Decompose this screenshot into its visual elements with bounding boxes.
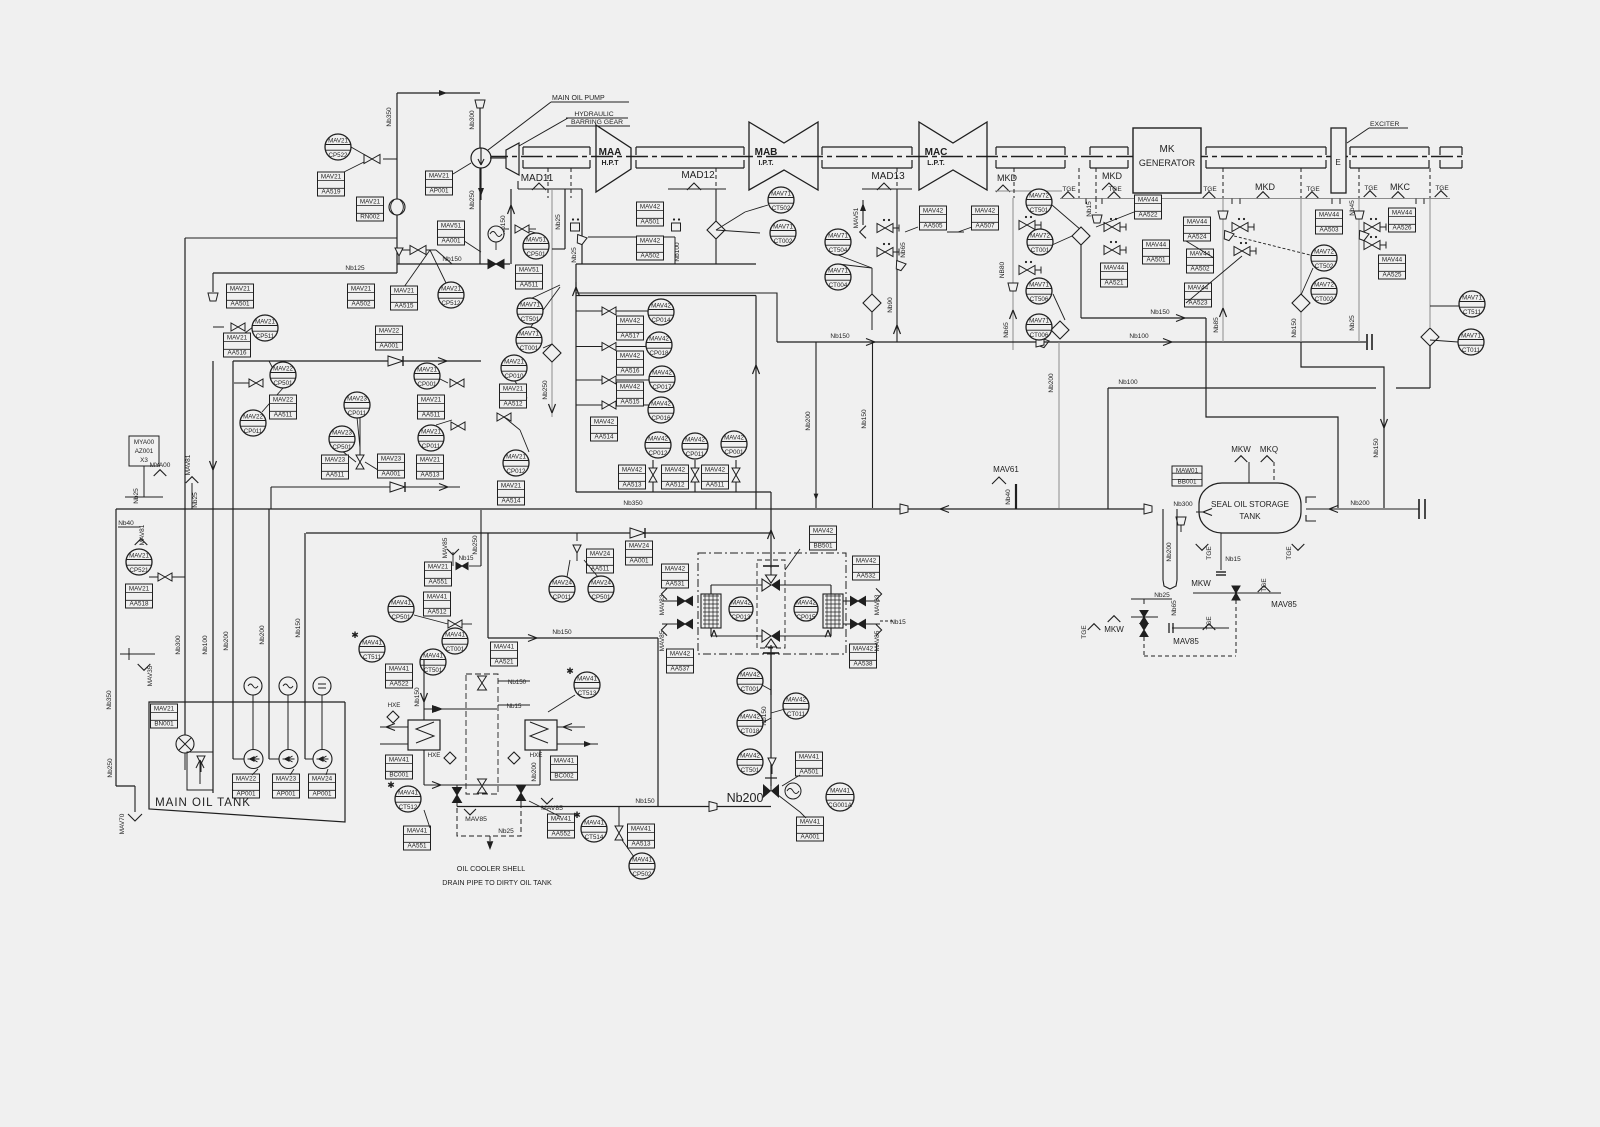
label box MAV22/AP001 [233, 774, 260, 798]
pennant [1088, 624, 1101, 630]
wire pump2 suction [268, 509, 270, 759]
svg-text:CT514: CT514 [585, 834, 604, 841]
left filter [701, 594, 721, 628]
instrument MAV72/CT501 [1026, 189, 1052, 215]
svg-text:MAV21: MAV21 [255, 318, 275, 325]
valve arrow [435, 706, 443, 712]
instrument MAV21/CP521 [126, 549, 152, 575]
svg-text:Nb25: Nb25 [192, 492, 199, 508]
label box MAV42/AA514 [591, 417, 618, 441]
instrument MAV22/CP501 [270, 362, 296, 388]
svg-text:MAV42: MAV42 [796, 599, 816, 606]
svg-text:✱: ✱ [351, 630, 359, 640]
svg-text:E: E [1335, 158, 1340, 167]
svg-text:AA531: AA531 [666, 580, 685, 587]
valve MAV42 branch [602, 376, 616, 384]
svg-text:MAV44: MAV44 [1138, 197, 1159, 204]
drain funnel [575, 235, 587, 246]
flow arrow [866, 339, 875, 346]
svg-text:MKD: MKD [1102, 171, 1123, 181]
svg-text:MAD13: MAD13 [871, 171, 905, 182]
instrument MAV72/CT502 [1311, 245, 1337, 271]
svg-text:MAV44: MAV44 [1104, 265, 1125, 272]
svg-text:MAV42: MAV42 [665, 566, 686, 573]
flow arrow [438, 358, 447, 365]
label box MAV42/AA501 [637, 202, 664, 226]
svg-text:MKD: MKD [1255, 182, 1276, 192]
svg-text:MAV41: MAV41 [398, 789, 418, 796]
wire cooler top header Nb150 [488, 637, 658, 639]
svg-text:MAV81: MAV81 [185, 454, 192, 475]
pennant [1203, 192, 1216, 198]
svg-text:Nb45: Nb45 [1349, 200, 1356, 216]
svg-text:MAV70: MAV70 [119, 813, 126, 834]
pennant [661, 624, 667, 635]
main oil tank outline [149, 702, 345, 822]
svg-text:CT502: CT502 [1315, 263, 1334, 270]
label box MAV51/AA511 [516, 265, 543, 289]
flow arrow [1163, 339, 1172, 346]
svg-text:MAV41: MAV41 [830, 787, 850, 794]
svg-text:MAV42: MAV42 [620, 318, 641, 325]
label box MAV42/AA538 [850, 644, 877, 668]
wire pump3 suction [304, 533, 306, 759]
label box MAV21/BN001 [151, 704, 178, 728]
svg-text:AA512: AA512 [428, 608, 447, 615]
svg-text:Nb40: Nb40 [1005, 489, 1012, 505]
svg-text:CP011: CP011 [348, 410, 367, 417]
label box MAV44/AA521 [1101, 263, 1128, 287]
svg-text:AA501: AA501 [231, 300, 250, 307]
svg-text:MAV42: MAV42 [731, 599, 751, 606]
wire MAV42 branch [576, 379, 649, 381]
cooler bottom connections [423, 750, 425, 785]
svg-text:MAV85: MAV85 [465, 816, 487, 823]
drain arrow [487, 841, 494, 850]
svg-text:AA513: AA513 [632, 840, 651, 847]
vent valve MAD13b [877, 243, 899, 257]
svg-text:AA512: AA512 [666, 481, 685, 488]
label box MAV44/AA524 [1184, 217, 1211, 241]
svg-text:Nb15: Nb15 [1086, 201, 1093, 217]
wire Nb125 y273 [213, 272, 397, 274]
flow arrow [508, 205, 515, 214]
label box MAV51/AA001 [438, 221, 465, 245]
svg-text:CT006: CT006 [1030, 332, 1049, 339]
svg-text:MAV44: MAV44 [1187, 219, 1208, 226]
label box MAV42/AA531 [662, 564, 689, 588]
svg-text:MAV42: MAV42 [740, 752, 760, 759]
label box MAV21/AA516 [224, 333, 251, 357]
shaft drop line [1078, 168, 1080, 198]
svg-text:MAV42: MAV42 [923, 208, 944, 215]
svg-text:MAV85: MAV85 [1271, 600, 1297, 609]
pennant [687, 183, 701, 190]
svg-text:MAV42: MAV42 [665, 467, 686, 474]
svg-text:AA514: AA514 [502, 497, 521, 504]
turbine MAC L.P.T [919, 122, 987, 190]
svg-text:AA513: AA513 [623, 481, 642, 488]
label box MAV44/AA523 [1185, 283, 1212, 307]
svg-text:MAV44: MAV44 [1392, 210, 1413, 217]
svg-text:AA503: AA503 [1320, 226, 1339, 233]
flow arrow [432, 782, 441, 789]
svg-text:MAV51: MAV51 [519, 267, 540, 274]
svg-text:MAIN OIL TANK: MAIN OIL TANK [155, 797, 251, 809]
wire Nb25 gray drop [1358, 199, 1360, 343]
svg-text:AA513: AA513 [421, 471, 440, 478]
valve Nb15 [456, 563, 468, 570]
wire drain down right [1206, 318, 1338, 508]
svg-text:Nb85: Nb85 [1213, 317, 1220, 333]
svg-text:MAV22: MAV22 [273, 397, 294, 404]
svg-text:TGE: TGE [1081, 625, 1088, 639]
svg-text:MAV42: MAV42 [856, 558, 877, 565]
instrument MAV22/CP011 [240, 410, 266, 436]
pennant [135, 539, 148, 545]
svg-text:TANK: TANK [1239, 512, 1261, 521]
shaft drop line [1300, 168, 1302, 198]
vent valve MKDb [1019, 261, 1041, 275]
svg-text:MAV21: MAV21 [230, 286, 251, 293]
drain funnel [894, 261, 906, 272]
wire tank outlet Nb200 [1306, 508, 1419, 510]
svg-text:Nb350: Nb350 [386, 107, 393, 127]
svg-text:Nb100: Nb100 [1129, 333, 1149, 340]
instrument MAV71/CT002 [770, 220, 796, 246]
pennant [876, 588, 882, 599]
svg-text:MYA00: MYA00 [150, 462, 171, 469]
pennant [138, 664, 151, 670]
shaft drop line [570, 168, 572, 198]
svg-text:Nb150: Nb150 [552, 629, 572, 636]
vent valve [1232, 218, 1254, 232]
wire Nb100 lower header y388 [1107, 388, 1109, 509]
svg-text:MAV21: MAV21 [129, 552, 149, 559]
svg-text:MAV42: MAV42 [813, 528, 834, 535]
svg-text:AA511: AA511 [326, 471, 345, 478]
drain funnel [208, 293, 218, 301]
svg-text:AA511: AA511 [422, 411, 441, 418]
instrument MAV42/CP013 [729, 597, 753, 621]
svg-text:AA515: AA515 [621, 398, 640, 405]
pennant [447, 549, 459, 555]
svg-text:BARRING GEAR: BARRING GEAR [571, 119, 623, 126]
wire MAV71 CT504 leaders [838, 255, 872, 268]
tank internal pump [176, 735, 194, 753]
svg-text:MAV41: MAV41 [389, 757, 410, 764]
svg-text:Nb150: Nb150 [1373, 438, 1380, 458]
svg-text:MAV71: MAV71 [773, 223, 793, 230]
svg-text:CT512: CT512 [399, 804, 418, 811]
svg-text:Nb200: Nb200 [259, 625, 266, 645]
label box MAV42/AA515 [617, 382, 644, 406]
svg-text:CT504: CT504 [829, 247, 848, 254]
svg-text:Nb150: Nb150 [442, 256, 462, 263]
shaft drop line [1013, 168, 1015, 198]
label box MAV44/AA522 [1135, 195, 1162, 219]
svg-text:AA514: AA514 [595, 433, 614, 440]
valve ext right top [851, 597, 866, 606]
label box MAV42/AA517 [617, 316, 644, 340]
pennant [1102, 183, 1116, 190]
valve MAV42 branch [602, 401, 616, 409]
motor symbol [244, 677, 262, 695]
shaft coupling bracket [636, 146, 744, 148]
sine instrument [488, 226, 504, 242]
svg-text:CP522: CP522 [329, 152, 348, 159]
sight glass MAD13 [863, 294, 881, 312]
svg-text:MAD11: MAD11 [521, 173, 554, 184]
svg-text:MAV41: MAV41 [799, 754, 820, 761]
label box MAV44/AA503 [1316, 210, 1343, 234]
svg-text:Nb15: Nb15 [890, 619, 906, 626]
svg-text:Nb150: Nb150 [508, 679, 527, 686]
svg-text:MAV42: MAV42 [648, 435, 668, 442]
svg-text:MAV21: MAV21 [351, 286, 372, 293]
svg-text:TGE: TGE [1261, 578, 1268, 592]
instrument MAV24/CP501 [588, 576, 614, 602]
flow arrow [1381, 419, 1388, 428]
diamond HXE L2 [444, 752, 456, 764]
reducer Nb200 [709, 802, 717, 812]
svg-text:AA501: AA501 [800, 768, 819, 775]
instrument MAV72/CT001 [1027, 229, 1053, 255]
wire MKD gray drop [1012, 198, 1014, 350]
wire MAV42 branch [576, 310, 649, 312]
shaft drop line [1429, 168, 1431, 198]
svg-text:Nb65: Nb65 [900, 242, 907, 258]
svg-text:MAV21: MAV21 [129, 586, 150, 593]
label box MAV21/AA515 [391, 286, 418, 310]
svg-text:MAV41: MAV41 [551, 816, 572, 823]
instrument MAV42/CP001 [721, 431, 747, 457]
svg-text:MAV24: MAV24 [312, 776, 333, 783]
label box MAV42/AA502 [637, 236, 664, 260]
svg-text:MAV42: MAV42 [640, 204, 661, 211]
svg-text:MAV41: MAV41 [631, 826, 652, 833]
svg-text:Nb90: Nb90 [887, 297, 894, 313]
instrument MAV71/CT506 [1026, 278, 1052, 304]
pennant [1306, 192, 1319, 198]
reducer on main header [900, 504, 908, 514]
exciter E [1331, 128, 1346, 193]
shaft coupling bracket [1350, 146, 1429, 148]
pennant [1203, 624, 1216, 630]
svg-text:L.P.T.: L.P.T. [927, 160, 944, 167]
svg-text:MAV42: MAV42 [651, 302, 671, 309]
svg-text:MAV41: MAV41 [632, 856, 652, 863]
svg-text:CP013: CP013 [732, 614, 751, 621]
reducer at tank inlet [1144, 504, 1152, 514]
relief valve extractor [768, 758, 776, 774]
shaft drop line [1095, 168, 1097, 198]
flow arrow [894, 325, 901, 334]
svg-text:CT501: CT501 [521, 316, 540, 323]
pennant [1062, 192, 1075, 198]
valve MKW left [1140, 611, 1148, 624]
svg-text:AA522: AA522 [1139, 211, 1158, 218]
svg-text:AA523: AA523 [1189, 299, 1208, 306]
instrument MAV42/CP016 [648, 397, 674, 423]
label box MAV22/AA511 [270, 395, 297, 419]
instrument MAV41/CP502 [629, 853, 655, 879]
svg-text:Nb200: Nb200 [1166, 542, 1173, 562]
svg-text:CG001A: CG001A [828, 802, 853, 809]
svg-text:MAV41: MAV41 [494, 644, 515, 651]
svg-text:MAV21: MAV21 [417, 366, 437, 373]
pressure switch sq2 [672, 218, 681, 231]
wire extractor feed [770, 492, 772, 568]
svg-text:AA501: AA501 [641, 218, 660, 225]
svg-text:MAV24: MAV24 [591, 579, 611, 586]
svg-text:MAV71: MAV71 [1029, 317, 1049, 324]
svg-text:AA515: AA515 [395, 302, 414, 309]
svg-text:AA511: AA511 [520, 281, 539, 288]
svg-text:CP010: CP010 [505, 373, 524, 380]
svg-text:CP012: CP012 [649, 450, 668, 457]
valve MAV42 branch [602, 307, 616, 315]
label box MAV41/AA501 [796, 752, 823, 776]
wire MKC gray drop [1429, 199, 1431, 329]
svg-text:CT002: CT002 [774, 238, 793, 245]
instrument MAV21/CP512 [438, 282, 464, 308]
diamond HXE L [387, 711, 399, 723]
svg-text:Nb200: Nb200 [531, 762, 538, 782]
label box MAV21/AA519 [318, 172, 345, 196]
pennant [1435, 191, 1448, 197]
shaft coupling bracket [1440, 146, 1462, 148]
vent valve gen-left b [1104, 241, 1126, 255]
svg-text:Nb250: Nb250 [472, 535, 479, 555]
svg-text:RN002: RN002 [360, 213, 380, 220]
svg-text:SEAL OIL STORAGE: SEAL OIL STORAGE [1211, 500, 1289, 509]
svg-text:TGE: TGE [1286, 546, 1293, 560]
pennant [1196, 544, 1209, 550]
svg-text:MKW: MKW [1104, 625, 1124, 634]
svg-text:BC002: BC002 [554, 772, 574, 779]
flow arrow [1329, 506, 1338, 513]
valve MAV22 [249, 379, 263, 387]
label box MAV21/AP001 [426, 171, 453, 195]
svg-text:Nb150: Nb150 [830, 333, 850, 340]
wire gen drain manifold y318 [1081, 317, 1206, 319]
svg-text:MAV51: MAV51 [441, 223, 462, 230]
svg-text:MAV41: MAV41 [554, 758, 575, 765]
pennant [128, 814, 142, 821]
pennant [1108, 616, 1121, 622]
label box MAV23/AA511 [322, 455, 349, 479]
instrument MAV41/CT514 [573, 810, 607, 842]
AC oil pump [313, 750, 332, 769]
svg-text:MAV24: MAV24 [590, 551, 611, 558]
loop arrow L [711, 630, 717, 637]
vent valve gen-left a [1104, 218, 1126, 232]
TGE header line [1060, 198, 1450, 200]
pennant [1392, 192, 1405, 198]
svg-text:CP001: CP001 [418, 381, 437, 388]
leaders right cluster [1096, 212, 1134, 227]
svg-text:✱: ✱ [566, 666, 574, 676]
svg-text:MAV44: MAV44 [1146, 242, 1167, 249]
svg-text:CP502: CP502 [633, 871, 652, 878]
svg-text:CP017: CP017 [653, 384, 672, 391]
svg-text:MAB: MAB [755, 147, 778, 158]
svg-text:MAV44: MAV44 [1382, 257, 1403, 264]
instrument MAV42/CT011 [783, 693, 809, 719]
svg-text:Nb40: Nb40 [118, 520, 134, 527]
isolating valve filled [488, 260, 504, 269]
svg-text:MAV41: MAV41 [391, 599, 411, 606]
svg-text:AA502: AA502 [1191, 265, 1210, 272]
svg-text:HYDRAULIC: HYDRAULIC [574, 111, 613, 118]
svg-text:MAV21: MAV21 [506, 453, 526, 460]
svg-text:CP012: CP012 [507, 468, 526, 475]
left oil cooler HXE [408, 720, 440, 750]
svg-text:MAV24: MAV24 [552, 579, 572, 586]
turbine MAA H.P.T [596, 125, 631, 192]
diamond HXE R1 [508, 752, 520, 764]
svg-text:AA525: AA525 [1383, 271, 1402, 278]
svg-text:CP011: CP011 [553, 594, 572, 601]
svg-text:Nb100: Nb100 [202, 635, 209, 655]
wire Nb200 U loop [1163, 509, 1177, 589]
check valve y487 [390, 482, 405, 492]
label box MAV22/AA001 [376, 326, 403, 350]
svg-text:AA517: AA517 [621, 332, 640, 339]
svg-text:CT011: CT011 [1462, 347, 1481, 354]
svg-text:MAC: MAC [925, 147, 948, 158]
dashed Nb25 drain box [457, 800, 521, 836]
label box MAV21/AA502 [348, 284, 375, 308]
wire MAV42 rack top [576, 295, 756, 297]
flow arrow [386, 724, 395, 731]
sight glass MAD12 [707, 221, 725, 239]
drain funnel [475, 100, 485, 108]
instrument MAV71/CT502 [768, 187, 794, 213]
label box MAV41/AA521 [491, 642, 518, 666]
svg-text:CP501: CP501 [333, 444, 352, 451]
svg-text:AP001: AP001 [313, 790, 332, 797]
seal oil storage tank [1199, 483, 1301, 533]
svg-text:MAV42: MAV42 [740, 671, 760, 678]
svg-text:MAV71: MAV71 [519, 330, 539, 337]
shaft drop line [896, 168, 898, 198]
wire Nb300 left vertical [184, 238, 186, 744]
svg-text:BC001: BC001 [389, 771, 409, 778]
flow arrow [1220, 308, 1227, 317]
label box MAV21/AA551 [425, 562, 452, 586]
instrument MAV71/CT504 [825, 229, 851, 255]
flow arrow [860, 203, 866, 211]
wire MAV42 rack right vertical [755, 296, 757, 510]
label box MAV21/RN002 [357, 197, 384, 221]
label box MAV41/AA552 [548, 814, 575, 838]
svg-text:MAV22: MAV22 [379, 328, 400, 335]
valve bottle [649, 468, 657, 482]
svg-text:CP011: CP011 [686, 451, 705, 458]
3-way valve extractor top [762, 566, 780, 591]
leader lines cluster [351, 147, 372, 159]
svg-text:Nb100: Nb100 [1118, 379, 1138, 386]
valve CP521 [158, 573, 172, 581]
cooler side arrows [557, 726, 585, 728]
svg-text:Nb150: Nb150 [414, 687, 421, 707]
svg-text:CT501: CT501 [1030, 207, 1049, 214]
svg-text:MAV23: MAV23 [276, 776, 297, 783]
wire Nb150 gray drop [1300, 199, 1302, 343]
svg-text:AA526: AA526 [1393, 224, 1412, 231]
